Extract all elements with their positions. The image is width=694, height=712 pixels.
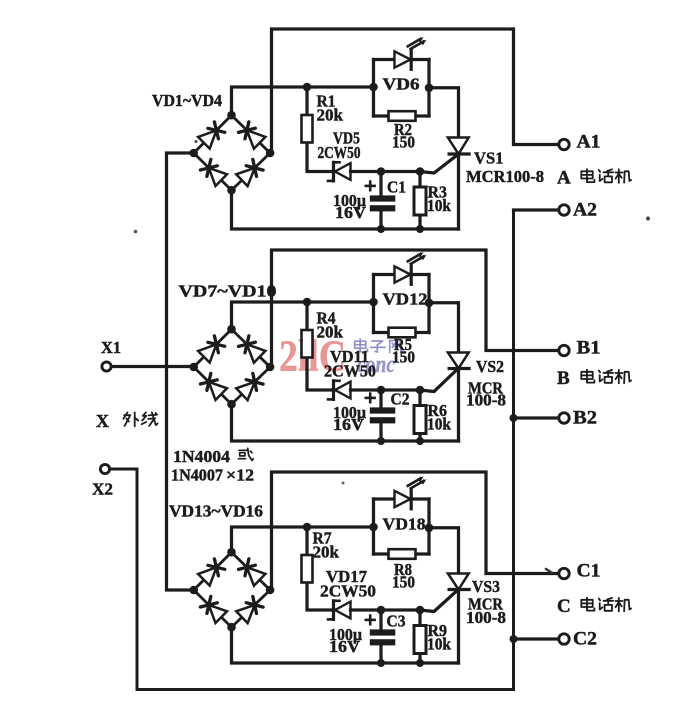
svg-text:2CW50: 2CW50 bbox=[320, 582, 376, 601]
label 20k R1 bbox=[317, 106, 344, 125]
wire LED block right to SCR VS2 anode bbox=[429, 303, 459, 353]
junction dot bottom rail at capacitor bbox=[377, 225, 385, 233]
svg-text:1N4004: 1N4004 bbox=[173, 447, 231, 466]
terminal X1 bbox=[102, 362, 111, 371]
resistor R1 20k bbox=[302, 87, 336, 172]
label VD7~VD10 bbox=[179, 282, 277, 301]
junction dot main rail at LED block right bbox=[425, 524, 434, 533]
junction dot main rail at LED block left bbox=[369, 523, 378, 532]
wire bridge B positive vertex to main rail bbox=[232, 302, 374, 329]
wire SCR VS1 cathode to bottom rail bbox=[457, 154, 460, 229]
label 20k R4 bbox=[317, 323, 344, 342]
svg-text:A: A bbox=[557, 168, 571, 189]
label 1N4004 或 bbox=[173, 447, 253, 466]
diode VD10 bridge B bbox=[236, 373, 263, 400]
svg-text:C1: C1 bbox=[577, 561, 601, 582]
label 10k R9 bbox=[427, 635, 451, 654]
label A2 bbox=[573, 200, 597, 221]
label C3 bbox=[387, 612, 406, 631]
svg-text:VS1: VS1 bbox=[474, 149, 504, 168]
wire LED block side rails bbox=[374, 499, 430, 554]
label 100µ C2 bbox=[333, 403, 366, 422]
label 1N4007 ×12 bbox=[171, 466, 254, 485]
label X1 bbox=[101, 338, 121, 357]
svg-text:16V: 16V bbox=[335, 203, 367, 222]
junction dot bottom rail at resistor bbox=[416, 437, 424, 445]
label X2 bbox=[92, 480, 113, 499]
resistor R4 20k bbox=[302, 302, 336, 390]
label VD1~VD4 bbox=[152, 91, 222, 110]
terminal X2 bbox=[100, 464, 109, 473]
zener diode VD5 2CW50 bbox=[328, 162, 382, 181]
label 2CW50 VD17 bbox=[320, 582, 376, 601]
SCR thyristor VS3 MCR100-8 bbox=[448, 574, 469, 590]
junction dot bottom rail at capacitor bbox=[377, 659, 385, 667]
label 100-8 VS2 bbox=[466, 391, 506, 410]
svg-text:150: 150 bbox=[392, 348, 415, 367]
svg-text:10k: 10k bbox=[427, 635, 451, 654]
watermark 电子网 violet bbox=[355, 339, 401, 352]
wire bridge arms bridge B bbox=[194, 329, 270, 404]
svg-text:10k: 10k bbox=[427, 415, 451, 434]
junction dot zener wire at resistor bbox=[416, 386, 425, 395]
wire bridge arms bridge C bbox=[194, 552, 270, 627]
junction dot main rail at LED block left bbox=[369, 298, 378, 307]
svg-text:16V: 16V bbox=[329, 637, 361, 656]
diode VD13 bridge C bbox=[198, 559, 225, 586]
label VS1 bbox=[474, 149, 504, 168]
wire terminal B2 to common bus bbox=[514, 416, 560, 419]
svg-text:×12: ×12 bbox=[226, 466, 254, 485]
diode VD1 bridge A bbox=[198, 122, 225, 149]
wire bridge C positive vertex to main rail bbox=[232, 527, 374, 552]
label VD12 bbox=[383, 290, 428, 309]
label R4 bbox=[317, 309, 336, 328]
scan speck bbox=[194, 140, 197, 143]
label 10k R3 bbox=[427, 196, 451, 215]
svg-text:100-8: 100-8 bbox=[466, 608, 506, 627]
resistor R3 10k bbox=[414, 172, 426, 230]
wire SCR VS3 cathode to bottom rail bbox=[457, 590, 460, 664]
label 100-8 VS3 bbox=[466, 608, 506, 627]
label C2 bbox=[391, 390, 410, 409]
wire bridge A negative vertex bottom rail bbox=[232, 190, 459, 229]
SCR thyristor VS1 MCR100-8 bbox=[448, 138, 469, 155]
junction dot main rail at shunt resistor bbox=[303, 523, 312, 532]
diode VD9 bridge B bbox=[200, 373, 227, 400]
svg-text:VD6: VD6 bbox=[383, 75, 420, 94]
svg-text:150: 150 bbox=[392, 573, 415, 592]
junction dot main rail at LED block left bbox=[369, 83, 378, 92]
watermark 21IC red bbox=[279, 332, 346, 381]
junction dot bus at B2 bbox=[510, 414, 518, 422]
svg-text:20k: 20k bbox=[317, 106, 344, 125]
label C1 bbox=[387, 178, 406, 197]
label 150 R2 bbox=[392, 133, 415, 152]
label B1 bbox=[577, 338, 601, 359]
label R9 bbox=[428, 621, 448, 640]
label 150 R5 bbox=[392, 348, 415, 367]
terminal A2 bbox=[559, 205, 569, 215]
wire SCR VS2 cathode to bottom rail bbox=[457, 369, 460, 442]
label 20k R7 bbox=[313, 543, 340, 562]
svg-text:A1: A1 bbox=[577, 132, 601, 153]
svg-text:C: C bbox=[557, 596, 571, 617]
svg-text:20k: 20k bbox=[317, 323, 344, 342]
junction dot zener wire at resistor bbox=[416, 167, 425, 176]
label VS2 bbox=[476, 357, 504, 376]
svg-text:B: B bbox=[557, 368, 570, 389]
wire terminal A2 to common bus bbox=[514, 208, 560, 211]
LED VD18 bbox=[374, 477, 430, 509]
junction dots bridge vertices bridge A bbox=[189, 111, 274, 195]
label MCR VS3 bbox=[468, 595, 504, 614]
svg-text:VD7~VD10: VD7~VD10 bbox=[179, 282, 277, 301]
label R1 bbox=[317, 92, 336, 111]
resistor R5 150 bbox=[374, 328, 430, 338]
junction dot main rail at shunt resistor bbox=[303, 83, 312, 92]
label VD13~VD16 bbox=[169, 502, 263, 521]
zener diode VD17 2CW50 bbox=[328, 601, 382, 620]
label R8 bbox=[394, 560, 412, 579]
svg-text:B1: B1 bbox=[577, 338, 601, 359]
label VD18 bbox=[383, 515, 426, 534]
terminal A1 bbox=[559, 139, 569, 149]
svg-text:X2: X2 bbox=[92, 480, 113, 499]
watermark com script bbox=[357, 352, 395, 378]
label 2CW50 VD11 bbox=[324, 362, 376, 381]
capacitor C1 100µ 16V bbox=[366, 172, 396, 230]
wire X1 to bridge B left vertex bbox=[112, 365, 194, 368]
junction dot bottom rail at resistor bbox=[416, 659, 424, 667]
wire zener node to SCR VS3 gate bbox=[382, 592, 456, 612]
wire bridge arms bridge A bbox=[194, 115, 270, 190]
label VD11 bbox=[330, 347, 369, 366]
wire bridge C negative vertex bottom rail bbox=[232, 627, 459, 663]
svg-text:VS3: VS3 bbox=[472, 577, 500, 596]
diode VD16 bridge C bbox=[236, 596, 263, 623]
wire zener node to SCR VS1 gate bbox=[382, 156, 456, 173]
junction dot bottom rail at resistor bbox=[416, 225, 424, 233]
label MCR VS2 bbox=[468, 379, 504, 398]
svg-text:B2: B2 bbox=[573, 408, 597, 429]
diode VD7 bridge B bbox=[198, 336, 225, 363]
zener diode VD11 2CW50 bbox=[328, 381, 382, 400]
label A 电话机 bbox=[557, 168, 631, 189]
junction dot main rail at shunt resistor bbox=[303, 298, 312, 307]
svg-text:150: 150 bbox=[392, 133, 415, 152]
svg-text:10k: 10k bbox=[427, 196, 451, 215]
label B 电话机 bbox=[557, 368, 631, 389]
resistor R7 20k bbox=[302, 527, 336, 610]
junction dot main rail at LED block right bbox=[425, 84, 434, 93]
svg-text:MCR100-8: MCR100-8 bbox=[466, 167, 544, 186]
terminal C1 bbox=[559, 568, 569, 578]
wire bridge C right vertex to terminal C1 bbox=[272, 472, 560, 590]
label VD6 bbox=[383, 75, 420, 94]
scan speck bbox=[342, 482, 345, 485]
label 100µ C3 bbox=[329, 625, 362, 644]
wire zener node to SCR VS2 gate bbox=[382, 371, 456, 392]
resistor R9 10k bbox=[414, 610, 426, 663]
capacitor C3 100µ 16V bbox=[366, 610, 396, 663]
diode VD3 bridge A bbox=[200, 159, 227, 186]
wire LED block side rails bbox=[374, 275, 430, 333]
diode VD4 bridge A bbox=[236, 159, 263, 186]
label 16V C1 bbox=[335, 203, 367, 222]
svg-text:1N4007: 1N4007 bbox=[171, 466, 223, 485]
wire bridge A positive vertex to main rail bbox=[232, 87, 374, 115]
terminal B1 bbox=[559, 345, 569, 355]
label VS3 bbox=[472, 577, 500, 596]
resistor R2 150 bbox=[374, 111, 430, 121]
label MCR100-8 VS1 bbox=[466, 167, 544, 186]
label VD17 bbox=[326, 567, 367, 586]
label R5 bbox=[394, 335, 412, 354]
capacitor C2 100µ 16V bbox=[366, 390, 396, 441]
svg-text:X: X bbox=[96, 411, 109, 431]
resistor R6 10k bbox=[414, 390, 426, 441]
label C2 bbox=[573, 629, 597, 650]
LED VD6 bbox=[374, 37, 430, 69]
label A1 bbox=[577, 132, 601, 153]
svg-text:VD18: VD18 bbox=[383, 515, 426, 534]
label B2 bbox=[573, 408, 597, 429]
label 16V C3 bbox=[329, 637, 361, 656]
wire bridge B negative vertex bottom rail bbox=[232, 404, 459, 441]
junction dot zener wire at capacitor bbox=[377, 386, 386, 395]
scan speck bbox=[646, 217, 650, 221]
wire bridge A right vertex to terminal A1 bbox=[272, 29, 560, 153]
svg-text:X1: X1 bbox=[101, 338, 121, 357]
svg-text:C2: C2 bbox=[573, 629, 597, 650]
label R6 bbox=[428, 401, 448, 420]
label R2 bbox=[394, 120, 412, 139]
junction dot zener wire at resistor bbox=[416, 606, 425, 615]
svg-text:A2: A2 bbox=[573, 200, 597, 221]
diode VD2 bridge A bbox=[239, 122, 266, 149]
svg-text:16V: 16V bbox=[333, 415, 365, 434]
wire left bus joining bridge A and bridge C left vertices bbox=[167, 153, 194, 590]
label VD5 bbox=[333, 129, 360, 148]
label 16V C2 bbox=[333, 415, 365, 434]
label 100µ C1 bbox=[333, 191, 366, 210]
label C 电话机 bbox=[557, 596, 631, 617]
label 2CW50 VD5 bbox=[318, 143, 361, 162]
svg-text:2CW50: 2CW50 bbox=[324, 362, 376, 381]
label R3 bbox=[428, 183, 448, 202]
scan speck bbox=[546, 569, 552, 573]
svg-text:C1: C1 bbox=[387, 178, 406, 197]
svg-text:20k: 20k bbox=[313, 543, 340, 562]
junction dots bridge vertices bridge B bbox=[189, 325, 274, 409]
junction dot bus at C2 bbox=[510, 635, 518, 643]
terminal B2 bbox=[559, 413, 569, 423]
svg-text:C3: C3 bbox=[387, 612, 406, 631]
diode VD14 bridge C bbox=[239, 559, 266, 586]
wire X2 common return bus to A2 B2 C2 bbox=[110, 210, 559, 690]
wire bridge B right vertex to terminal B1 bbox=[272, 250, 560, 367]
svg-text:100-8: 100-8 bbox=[466, 391, 506, 410]
svg-text:C2: C2 bbox=[391, 390, 410, 409]
terminal C2 bbox=[559, 634, 569, 644]
wire LED block right to SCR VS3 anode bbox=[429, 528, 459, 574]
svg-text:VD1~VD4: VD1~VD4 bbox=[152, 91, 222, 110]
LED VD12 bbox=[374, 252, 430, 284]
diode VD8 bridge B bbox=[239, 336, 266, 363]
label X 外线 bbox=[96, 411, 158, 431]
label R7 bbox=[313, 529, 332, 548]
diode VD15 bridge C bbox=[200, 596, 227, 623]
svg-text:VS2: VS2 bbox=[476, 357, 504, 376]
SCR thyristor VS2 MCR100-8 bbox=[448, 353, 469, 369]
resistor R8 150 bbox=[374, 549, 430, 559]
label 150 R8 bbox=[392, 573, 415, 592]
junction dots bridge vertices bridge C bbox=[189, 548, 274, 632]
junction dot zener wire at capacitor bbox=[377, 606, 386, 615]
scan speck bbox=[134, 230, 138, 234]
label 10k R6 bbox=[427, 415, 451, 434]
junction dot bottom rail at capacitor bbox=[377, 437, 385, 445]
svg-text:VD12: VD12 bbox=[383, 290, 428, 309]
junction dot zener wire at capacitor bbox=[377, 167, 386, 176]
label C1 bbox=[577, 561, 601, 582]
junction dot main rail at LED block right bbox=[425, 299, 434, 308]
wire LED block side rails bbox=[374, 60, 430, 117]
svg-text:VD13~VD16: VD13~VD16 bbox=[169, 502, 263, 521]
wire terminal C2 to common bus bbox=[514, 637, 560, 640]
wire LED block right to SCR VS1 anode bbox=[429, 88, 459, 138]
svg-text:2CW50: 2CW50 bbox=[318, 143, 361, 162]
